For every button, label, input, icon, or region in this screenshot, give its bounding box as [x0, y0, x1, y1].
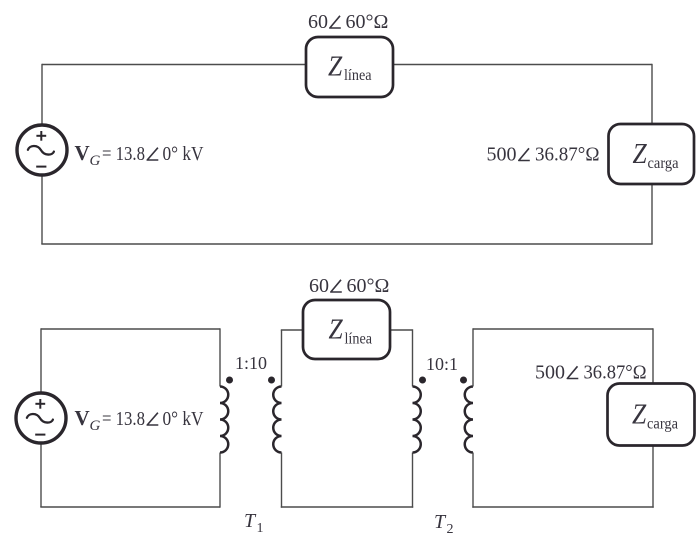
- label VG = 13.8 angle 0 kV (top): [75, 141, 204, 169]
- impedance box Z carga (bottom): [608, 384, 695, 446]
- svg-text:línea: línea: [344, 67, 372, 84]
- label VG = 13.8 angle 0 kV (bottom): [75, 406, 204, 434]
- middle loop left wire lower: [281, 453, 283, 508]
- svg-text:T: T: [244, 510, 257, 532]
- middle loop top-right wire: [390, 329, 413, 331]
- svg-text:60°Ω: 60°Ω: [346, 11, 389, 33]
- svg-text:V: V: [75, 141, 90, 165]
- wire top-right segment: [393, 64, 652, 66]
- middle loop left wire upper: [281, 330, 283, 387]
- left loop right wire upper: [219, 328, 221, 386]
- transformer T1 secondary coil: [273, 387, 281, 453]
- svg-text:0° kV: 0° kV: [163, 143, 204, 165]
- voltage source VG (top): [17, 125, 67, 175]
- transformer T1 primary coil: [220, 387, 228, 453]
- wire right upper: [651, 64, 653, 124]
- impedance box Z linea (bottom): [303, 300, 390, 359]
- svg-text:500: 500: [487, 144, 517, 166]
- svg-text:línea: línea: [345, 331, 373, 348]
- svg-text:500: 500: [535, 362, 565, 384]
- svg-text:Z: Z: [329, 315, 344, 346]
- left loop right wire lower: [219, 453, 221, 508]
- Z linea text (top): [328, 51, 372, 84]
- svg-text:0° kV: 0° kV: [163, 408, 204, 430]
- svg-text:Z: Z: [328, 51, 343, 82]
- left loop left wire lower: [40, 445, 42, 508]
- svg-text:10:1: 10:1: [426, 354, 458, 374]
- left loop left wire upper: [40, 328, 42, 393]
- voltage source VG (bottom): [16, 393, 66, 443]
- left loop top wire: [41, 328, 220, 330]
- label T2: [434, 511, 454, 537]
- svg-text:V: V: [75, 406, 90, 430]
- svg-text:G: G: [90, 153, 101, 169]
- label 60 angle 60 ohm (top): [308, 11, 388, 33]
- svg-text:T: T: [434, 511, 447, 533]
- svg-text:36.87°Ω: 36.87°Ω: [584, 362, 647, 384]
- svg-text:60: 60: [309, 275, 329, 297]
- right loop bottom wire: [472, 506, 653, 508]
- right loop top wire: [473, 328, 653, 330]
- T2 primary polarity dot: [419, 377, 426, 384]
- middle loop right wire lower: [412, 453, 414, 508]
- right loop right wire upper: [652, 328, 654, 383]
- wire left lower: [41, 177, 43, 245]
- impedance box Z carga (top): [609, 124, 695, 184]
- label T1: [244, 510, 264, 536]
- transformer T2 primary coil: [413, 387, 421, 453]
- wire right lower: [651, 184, 653, 244]
- impedance box Z linea (top): [306, 37, 393, 97]
- svg-text:= 13.8: = 13.8: [102, 143, 145, 165]
- middle loop right wire upper: [412, 329, 414, 386]
- Z linea text (bottom): [329, 315, 373, 348]
- svg-text:carga: carga: [648, 155, 679, 172]
- wire top-left segment: [42, 64, 306, 66]
- transformer T2 secondary coil: [465, 387, 473, 453]
- T2 secondary polarity dot: [460, 377, 467, 384]
- svg-text:36.87°Ω: 36.87°Ω: [535, 144, 600, 166]
- middle loop bottom wire: [281, 506, 413, 508]
- right loop left wire lower: [472, 453, 474, 508]
- wire left upper: [41, 64, 43, 124]
- svg-text:G: G: [90, 418, 101, 434]
- label 500 angle 36.87 ohm (top): [487, 144, 600, 166]
- svg-text:1: 1: [257, 521, 264, 536]
- svg-text:60°Ω: 60°Ω: [347, 275, 390, 297]
- Z carga text (top): [633, 139, 679, 172]
- right loop right wire lower: [652, 446, 654, 508]
- T1 secondary polarity dot: [268, 377, 275, 384]
- label 60 angle 60 ohm (bottom): [309, 275, 389, 297]
- label 500 angle 36.87 ohm (bottom): [535, 362, 647, 384]
- svg-text:carga: carga: [647, 416, 678, 433]
- svg-text:Z: Z: [633, 139, 648, 170]
- svg-text:1:10: 1:10: [235, 353, 267, 373]
- wire bottom: [41, 243, 652, 245]
- Z carga text (bottom): [632, 400, 678, 433]
- svg-text:60: 60: [308, 11, 328, 33]
- T1 primary polarity dot: [226, 377, 233, 384]
- right loop left wire upper: [472, 328, 474, 386]
- svg-text:= 13.8: = 13.8: [102, 408, 145, 430]
- svg-text:2: 2: [447, 522, 454, 537]
- left loop bottom wire: [40, 506, 220, 508]
- middle loop top-left wire: [281, 329, 303, 331]
- svg-text:Z: Z: [632, 400, 647, 431]
